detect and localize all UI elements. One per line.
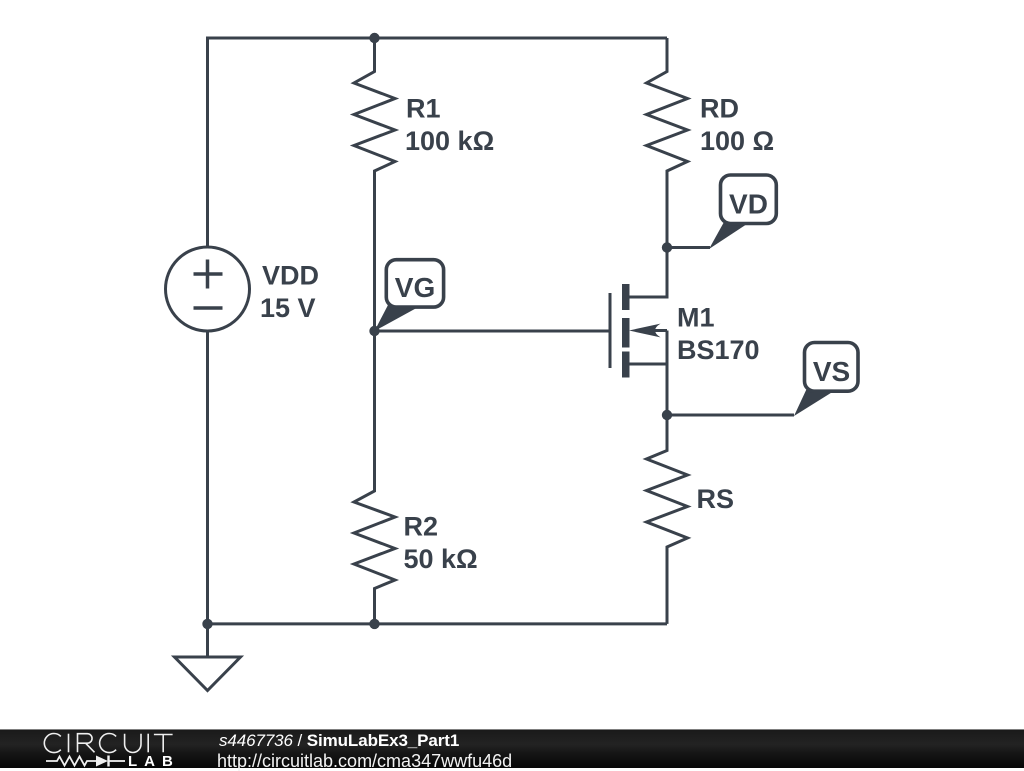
flag VD [709,175,776,249]
flag VG [375,260,444,331]
svg-text:VG: VG [395,272,435,303]
CircuitLab logo wire and diode glyph [44,753,174,769]
node junction dot top [369,33,379,43]
transistor M1 channel bar bottom [622,352,630,378]
svg-text:VS: VS [813,356,850,387]
CircuitLab logo text LAB [128,754,180,769]
wire VS stub [667,414,794,417]
node bottom R2 junction dot [369,619,379,629]
svg-text:100 kΩ: 100 kΩ [405,126,494,156]
voltage source minus sign [194,306,223,310]
node VS junction dot [662,410,672,420]
node VG junction dot [369,326,379,336]
node bottom-left junction dot [202,619,212,629]
ground [175,624,241,691]
svg-text:R2: R2 [404,512,439,542]
svg-text:RS: RS [697,484,735,514]
svg-text:RD: RD [700,94,739,124]
transistor M1 channel bar middle [622,318,630,348]
bottom bar [0,729,1024,768]
resistor RS [647,415,688,624]
CircuitLab logo text CIRCUIT (thin stroked letters) [0,730,200,769]
wire drain of M1 [629,248,667,298]
voltage source plus sign [194,260,223,289]
resistor RD [647,38,688,248]
svg-text:R1: R1 [406,94,441,124]
schematic title line [219,732,459,750]
resistor R1 [354,38,395,331]
transistor Q M1 gate bar [609,293,612,368]
wire top and left rail [208,38,668,247]
wire VD stub [667,246,710,249]
wire gate from VG node to M1 [375,330,612,333]
wire source of M1 [629,331,667,416]
svg-text:VD: VD [729,188,768,219]
svg-text:VDD: VDD [262,261,319,291]
svg-text:50 kΩ: 50 kΩ [404,544,478,574]
flag VS [794,343,858,417]
schematic url line [217,752,512,770]
svg-text:15 V: 15 V [260,293,316,323]
transistor M1 body arrow [629,324,667,338]
node VD junction dot [662,242,672,252]
svg-text:100 Ω: 100 Ω [700,126,774,156]
wire bottom rail [208,331,668,624]
svg-text:BS170: BS170 [677,335,760,365]
voltage source V1 VDD circle [166,247,250,331]
transistor M1 channel bar top [622,284,630,310]
svg-text:M1: M1 [677,303,715,333]
resistor R2 [354,331,395,624]
